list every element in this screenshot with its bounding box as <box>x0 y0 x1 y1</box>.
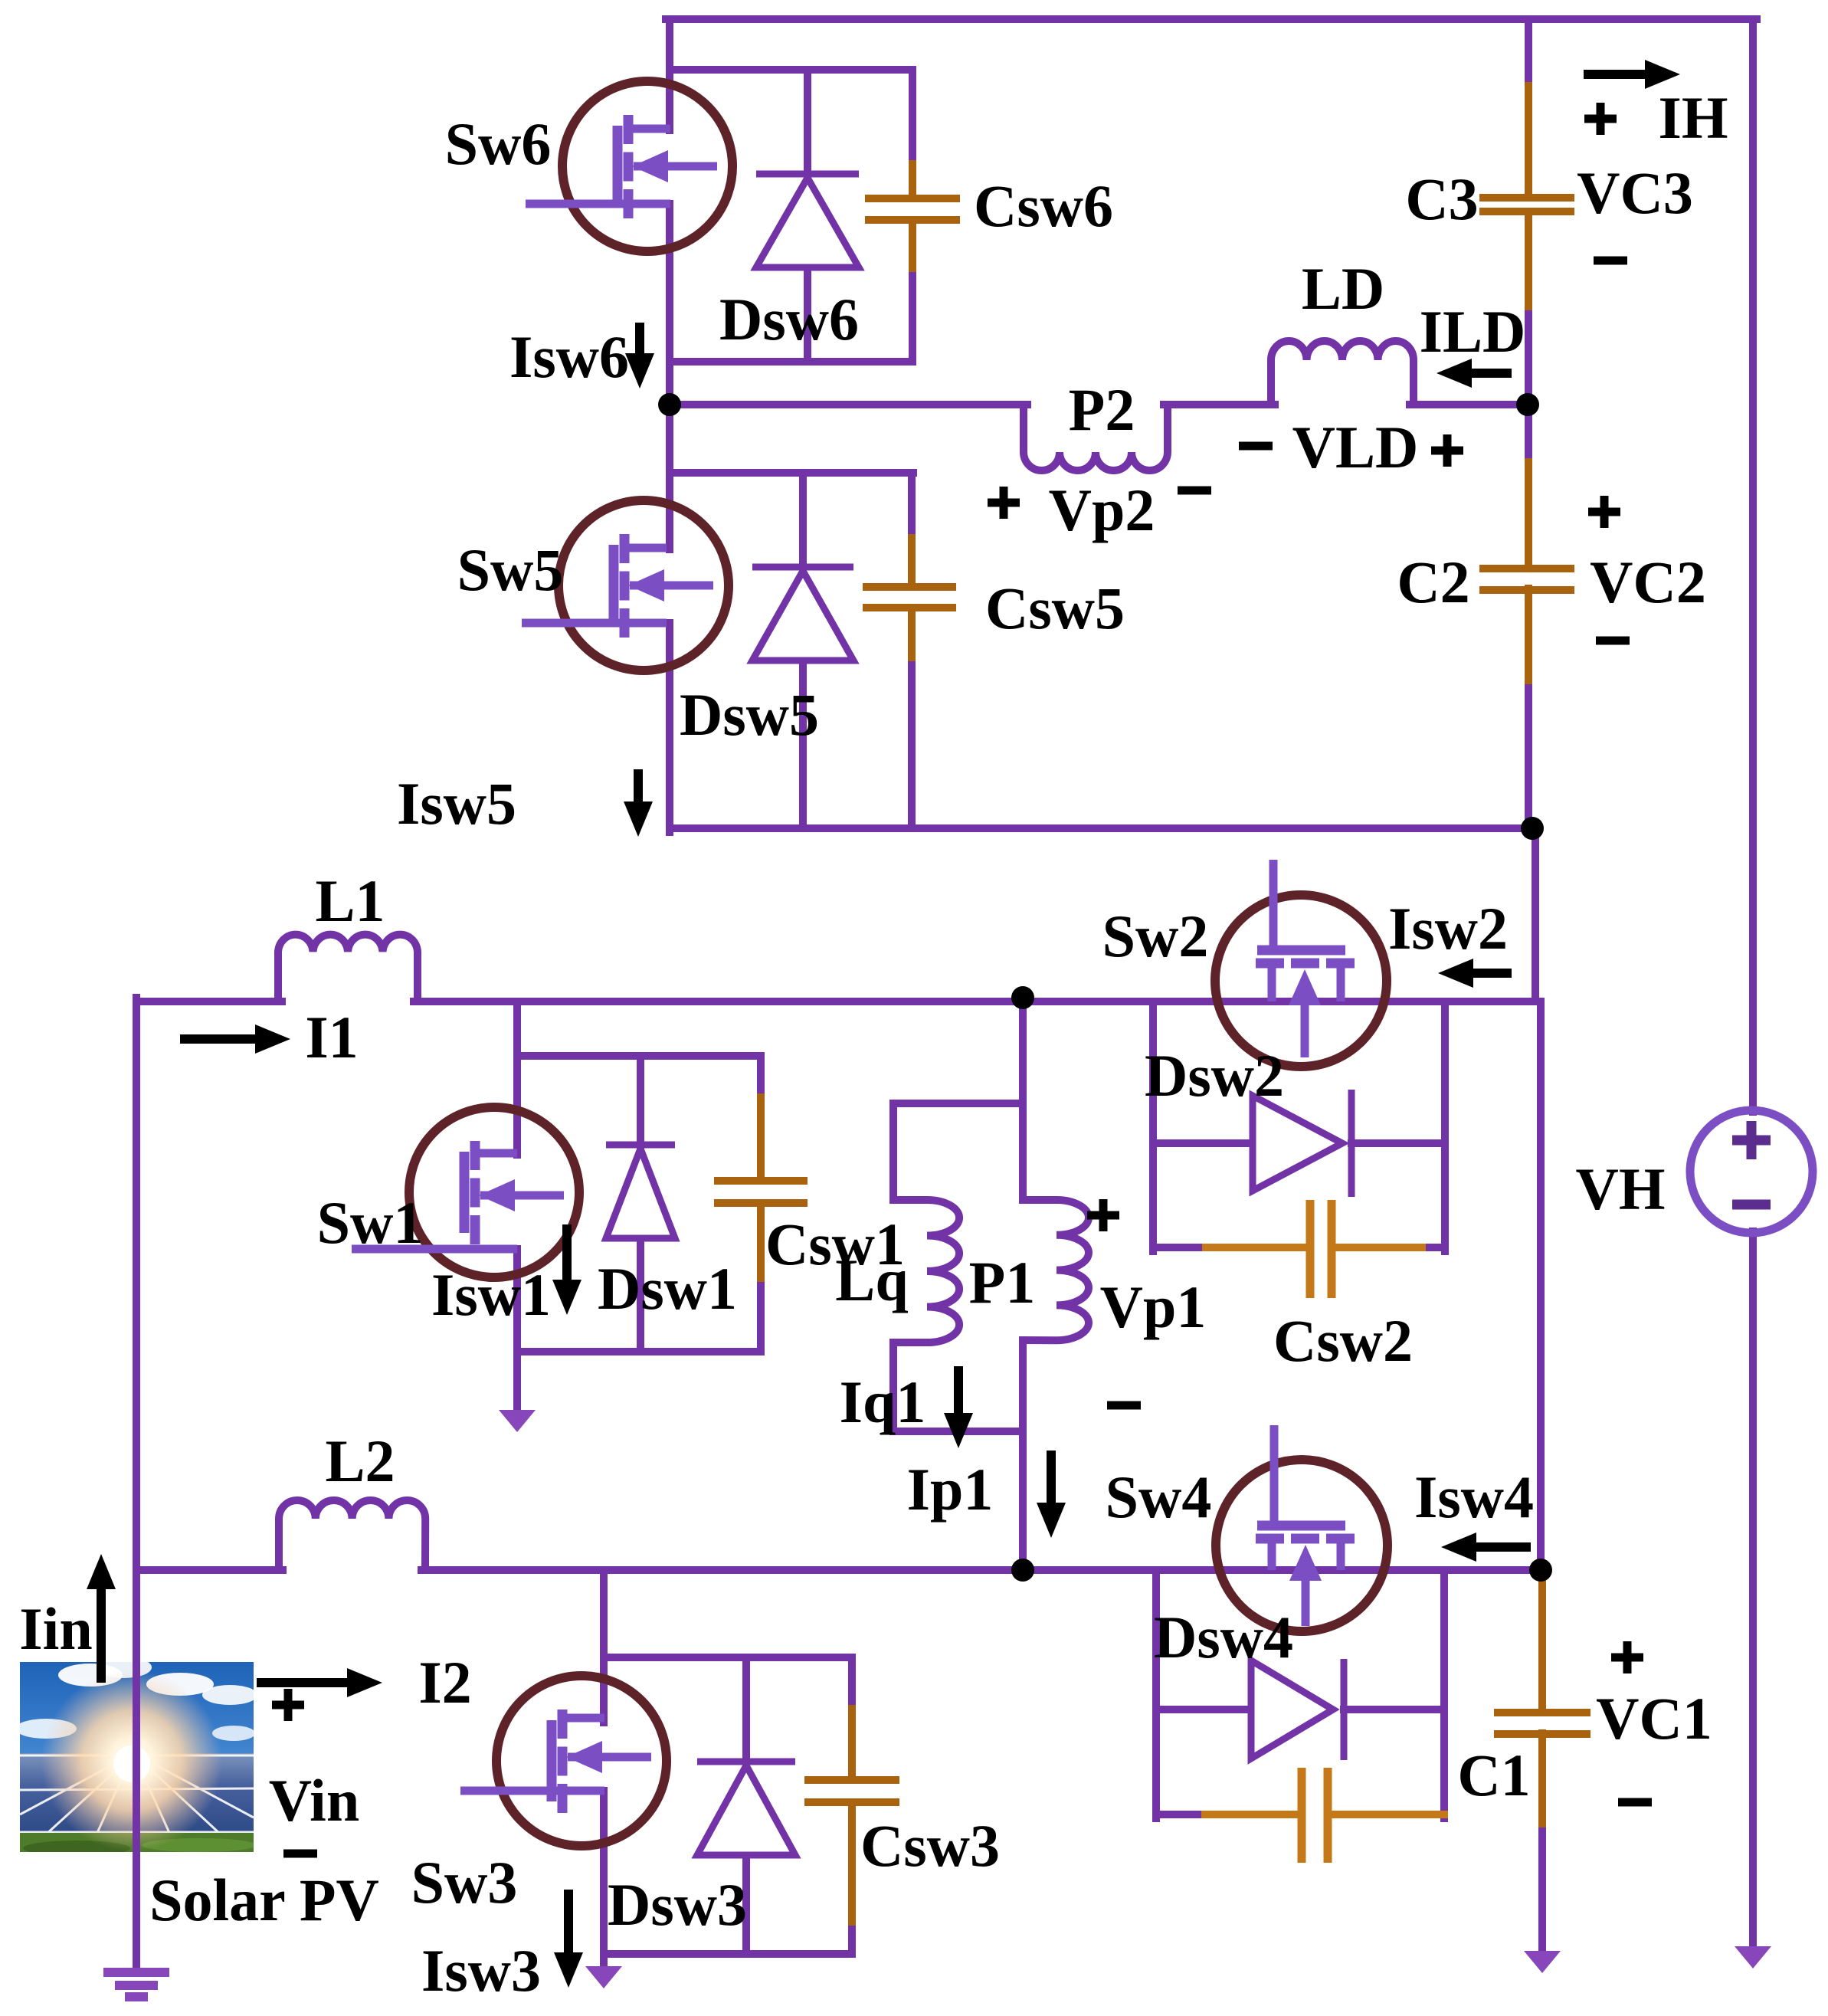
wire Csw1 top lead purple <box>757 1056 765 1097</box>
wire Sw3 source <box>600 1791 608 1968</box>
plus VC2 <box>1588 496 1620 528</box>
capacitor C3 <box>1479 198 1574 211</box>
wire LD to right bus <box>1410 401 1532 408</box>
wire main node rail y1307 <box>414 998 1541 1005</box>
wire Csw3 bottom lead orange <box>848 1802 856 1929</box>
diode Dsw3 <box>697 1762 795 1855</box>
svg-text:IH: IH <box>1658 84 1728 151</box>
svg-text:P1: P1 <box>969 1249 1036 1316</box>
wire Sw3 drain <box>600 1570 608 1723</box>
wire Lq bottom lead <box>889 1342 897 1431</box>
inductor P1 primary winding <box>1023 1200 1089 1340</box>
wire Dsw4 cathode lead <box>1344 1706 1444 1713</box>
wire right bus ILD node to C2 <box>1525 401 1532 462</box>
wire Dsw1 top lead <box>637 1056 644 1147</box>
wire Sw5 snubber top <box>670 469 913 477</box>
wire right bus Sw2 rail to Sw4 node <box>1537 1001 1545 1570</box>
wire C1 bottom lead orange <box>1538 1733 1546 1831</box>
wire Csw6 bottom lead purple <box>909 276 916 362</box>
arrow Isw1 <box>552 1224 581 1315</box>
capacitor Dsw4 snubber cap <box>1302 1768 1328 1863</box>
diode Dsw1 <box>606 1145 675 1238</box>
arrow Iq1 <box>944 1366 973 1448</box>
wire right bus node to Sw2 rail <box>1532 828 1539 1001</box>
wire C2 top lead orange <box>1525 462 1532 567</box>
wire Lq top tap <box>893 1100 1023 1107</box>
wire top rail <box>666 15 1757 23</box>
capacitor Csw6 <box>865 198 960 220</box>
svg-text:Dsw4: Dsw4 <box>1154 1604 1293 1670</box>
wire Csw2 right lead purple <box>1430 1244 1445 1251</box>
svg-text:Sw5: Sw5 <box>457 536 564 603</box>
wire Csw6 bottom lead orange <box>909 220 916 276</box>
wire Dsw5 top lead <box>799 473 807 572</box>
svg-text:Isw1: Isw1 <box>431 1261 551 1328</box>
minus VC2 <box>1596 637 1630 645</box>
svg-text:VH: VH <box>1576 1156 1666 1222</box>
wire Dsw4 cap left lead orange <box>1205 1811 1301 1818</box>
svg-text:Iq1: Iq1 <box>840 1369 926 1435</box>
wire Csw5 bottom lead purple <box>908 665 916 828</box>
svg-text:Dsw3: Dsw3 <box>608 1871 747 1938</box>
svg-text:LD: LD <box>1302 255 1384 322</box>
wire Dsw6 top lead <box>804 70 811 179</box>
wire C3 bottom lead orange <box>1525 211 1532 314</box>
svg-text:L2: L2 <box>325 1428 395 1494</box>
ground input <box>103 1972 169 1997</box>
arrow I1 <box>180 1024 290 1054</box>
svg-text:ILD: ILD <box>1420 298 1526 365</box>
wire Lq top lead <box>889 1103 897 1200</box>
svg-text:Isw6: Isw6 <box>509 323 629 390</box>
wire Sw1 source <box>513 1249 521 1411</box>
wire left rail <box>133 998 140 1971</box>
capacitor Csw2 <box>1310 1200 1332 1298</box>
svg-text:Dsw2: Dsw2 <box>1145 1042 1284 1109</box>
arrow I2 <box>257 1668 382 1697</box>
wire Dsw1 snubber top <box>517 1052 761 1060</box>
wire right bus C3 to ILD node <box>1525 314 1532 408</box>
inductor P2 <box>1024 405 1168 470</box>
minus VLD <box>1239 442 1273 451</box>
wire Sw6 snubber bottom <box>670 358 912 366</box>
arrow ILD <box>1437 359 1512 388</box>
wire Csw5 bottom lead orange <box>908 608 916 665</box>
plus VC1 <box>1611 1641 1643 1673</box>
svg-text:Ip1: Ip1 <box>907 1456 994 1523</box>
wire Dsw4 left leg <box>1152 1570 1160 1818</box>
wire Sw5 snubber bottom and run to bus <box>670 824 1536 832</box>
node C2 bottom junction <box>1521 817 1544 840</box>
wire Sw6 drain from top rail <box>666 19 673 130</box>
wire Lq bottom tap <box>893 1428 1023 1435</box>
wire P2 to LD <box>1164 401 1275 408</box>
wire Dsw4 cap left lead purple <box>1156 1811 1205 1818</box>
wire Dsw3 snubber bottom <box>604 1950 852 1958</box>
voltage source VH <box>1690 1110 1813 1233</box>
minus Vp1 <box>1107 1401 1141 1410</box>
svg-text:Dsw6: Dsw6 <box>719 286 859 352</box>
capacitor Csw5 <box>863 587 956 608</box>
wire Dsw2 cathode lead <box>1351 1139 1445 1147</box>
wire Dsw2 anode lead <box>1153 1139 1256 1147</box>
wire C3 top lead orange <box>1525 86 1532 198</box>
svg-text:P2: P2 <box>1069 376 1135 443</box>
svg-text:C2: C2 <box>1397 549 1469 615</box>
wire Dsw3 bottom lead <box>742 1858 750 1954</box>
svg-text:Sw6: Sw6 <box>445 110 552 177</box>
wire Dsw2 left leg <box>1149 1001 1157 1251</box>
node Sw6-Sw5 junction <box>658 393 681 416</box>
wire VH rail lower <box>1749 1231 1757 1948</box>
diode Dsw5 <box>752 567 853 661</box>
transistor Sw6 <box>526 81 732 251</box>
svg-text:Dsw1: Dsw1 <box>598 1255 737 1322</box>
wire Dsw4 right leg <box>1440 1570 1448 1818</box>
minus VC3 <box>1594 257 1627 265</box>
inductor LD <box>1271 341 1414 405</box>
wire Dsw4 cap right lead orange <box>1328 1811 1444 1818</box>
svg-text:L1: L1 <box>315 867 385 934</box>
diode Dsw2 <box>1253 1090 1351 1197</box>
wire Dsw4 anode lead <box>1156 1706 1255 1713</box>
transistor Sw2 <box>1215 860 1387 1067</box>
diode Dsw6 <box>756 174 859 267</box>
wire Dsw3 top lead <box>742 1657 750 1767</box>
wire Dsw5 bottom lead <box>799 661 807 828</box>
transistor Sw4 <box>1216 1425 1387 1631</box>
inductor L1 <box>278 935 418 1001</box>
wire Csw2 left lead orange <box>1206 1244 1310 1251</box>
svg-text:Sw1: Sw1 <box>317 1189 424 1256</box>
wire C1 bottom lead purple <box>1538 1831 1546 1952</box>
minus Vin <box>283 1850 317 1858</box>
wire right bus C2 to node <box>1525 688 1532 832</box>
wire Sw5 drain <box>666 405 673 549</box>
svg-text:Csw2: Csw2 <box>1273 1307 1413 1374</box>
node P1 bottom junction <box>1011 1559 1034 1582</box>
node ILD junction <box>1516 393 1539 416</box>
wire Dsw6 bottom lead <box>804 267 811 362</box>
wire L1 left <box>136 998 282 1005</box>
svg-text:Isw3: Isw3 <box>421 1937 541 2004</box>
capacitor Csw3 <box>804 1780 899 1802</box>
wire Csw5 top lead orange <box>908 538 916 587</box>
wire Csw3 top lead purple <box>848 1657 856 1709</box>
svg-text:Isw4: Isw4 <box>1414 1464 1534 1530</box>
svg-text:VC2: VC2 <box>1590 549 1706 615</box>
wire P1 top lead <box>1019 998 1027 1200</box>
wire Dsw1 bottom lead <box>637 1238 644 1352</box>
wire Csw2 left lead purple <box>1153 1244 1206 1251</box>
svg-text:I1: I1 <box>305 1004 358 1070</box>
transistor Sw1 <box>352 1107 579 1277</box>
svg-text:Csw3: Csw3 <box>860 1812 1000 1879</box>
arrow Isw6 <box>625 323 654 388</box>
svg-text:Isw5: Isw5 <box>397 770 516 837</box>
svg-text:Sw3: Sw3 <box>411 1849 518 1916</box>
wire Csw6 top lead orange <box>909 164 916 196</box>
wire Csw1 bottom lead purple <box>757 1286 765 1352</box>
wire Csw3 bottom lead purple <box>848 1929 856 1954</box>
plus Vin <box>272 1689 304 1721</box>
svg-text:Iin: Iin <box>19 1595 92 1662</box>
diode Dsw4 <box>1251 1659 1344 1760</box>
wire Sw5 source <box>666 623 673 832</box>
plus VC3 <box>1584 103 1617 135</box>
svg-text:Vp2: Vp2 <box>1049 477 1155 543</box>
svg-text:I2: I2 <box>418 1649 471 1716</box>
wire Dsw2 right leg <box>1441 1001 1449 1251</box>
wire Sw6 source <box>666 204 673 408</box>
wire Csw6 top lead purple <box>909 70 916 164</box>
wire Csw2 right lead orange <box>1332 1244 1430 1251</box>
arrow Isw4 <box>1441 1532 1531 1562</box>
ground Sw3 source terminator <box>585 1966 622 1988</box>
arrow IH <box>1584 60 1680 89</box>
transistor Sw5 <box>522 500 729 670</box>
svg-text:VC1: VC1 <box>1596 1685 1712 1752</box>
wire node to P2 <box>670 401 1027 408</box>
svg-text:Csw5: Csw5 <box>985 575 1125 641</box>
capacitor C1 <box>1494 1713 1590 1734</box>
wire Csw1 bottom lead orange <box>757 1203 765 1286</box>
svg-text:Isw2: Isw2 <box>1388 895 1508 962</box>
wire Csw5 top lead purple <box>908 473 916 538</box>
svg-text:VLD: VLD <box>1292 414 1419 480</box>
svg-text:Sw4: Sw4 <box>1106 1464 1212 1530</box>
wire VH right rail upper <box>1749 19 1757 1112</box>
svg-text:Vin: Vin <box>269 1767 360 1834</box>
arrow Isw2 <box>1438 959 1512 988</box>
wire Sw6 snubber top <box>670 66 912 74</box>
plus Vp2 <box>988 487 1020 519</box>
inductor Lq <box>893 1200 959 1342</box>
minus Vp2 <box>1178 487 1211 495</box>
svg-text:Vp1: Vp1 <box>1100 1274 1207 1340</box>
svg-text:Solar PV: Solar PV <box>149 1867 379 1933</box>
ground VH terminator <box>1735 1946 1771 1968</box>
wire main rail y2049 <box>421 1566 1541 1574</box>
wire L2 left <box>136 1566 283 1574</box>
wire Csw3 top lead orange <box>848 1709 856 1778</box>
arrow Isw5 <box>624 769 653 837</box>
wire C1 top lead orange <box>1538 1570 1546 1712</box>
wire Dsw1 snubber bottom <box>517 1348 761 1355</box>
plus Vp1 <box>1087 1199 1119 1231</box>
svg-text:VC3: VC3 <box>1577 159 1693 226</box>
wire Csw1 top lead orange <box>757 1097 765 1179</box>
wire C2 bottom lead orange <box>1525 588 1532 688</box>
ground Sw1 source terminator <box>499 1410 536 1432</box>
node P1 top junction <box>1011 986 1034 1009</box>
svg-text:Csw6: Csw6 <box>974 172 1113 239</box>
wire P1 bottom lead <box>1019 1340 1027 1570</box>
arrow Ip1 <box>1037 1451 1066 1538</box>
minus VC1 <box>1618 1798 1652 1807</box>
solar PV source image <box>15 1657 257 1856</box>
svg-text:Lq: Lq <box>835 1247 908 1313</box>
wire right bus above C3 purple <box>1525 19 1532 86</box>
transistor Sw3 <box>460 1676 667 1846</box>
svg-text:Sw2: Sw2 <box>1102 903 1209 969</box>
ground C1 terminator <box>1524 1951 1561 1973</box>
wire Dsw3 snubber top <box>604 1654 852 1661</box>
wire Sw1 drain <box>513 1001 521 1155</box>
svg-text:C1: C1 <box>1457 1742 1530 1808</box>
capacitor Csw1 <box>714 1181 808 1203</box>
arrow Isw3 <box>554 1890 583 1988</box>
inductor L2 <box>279 1500 425 1570</box>
arrow Iin <box>87 1554 116 1683</box>
svg-text:Dsw5: Dsw5 <box>680 681 819 748</box>
node Sw4 output junction <box>1529 1559 1552 1582</box>
plus VLD <box>1431 434 1463 467</box>
svg-text:C3: C3 <box>1405 166 1478 232</box>
capacitor C2 <box>1479 569 1574 590</box>
